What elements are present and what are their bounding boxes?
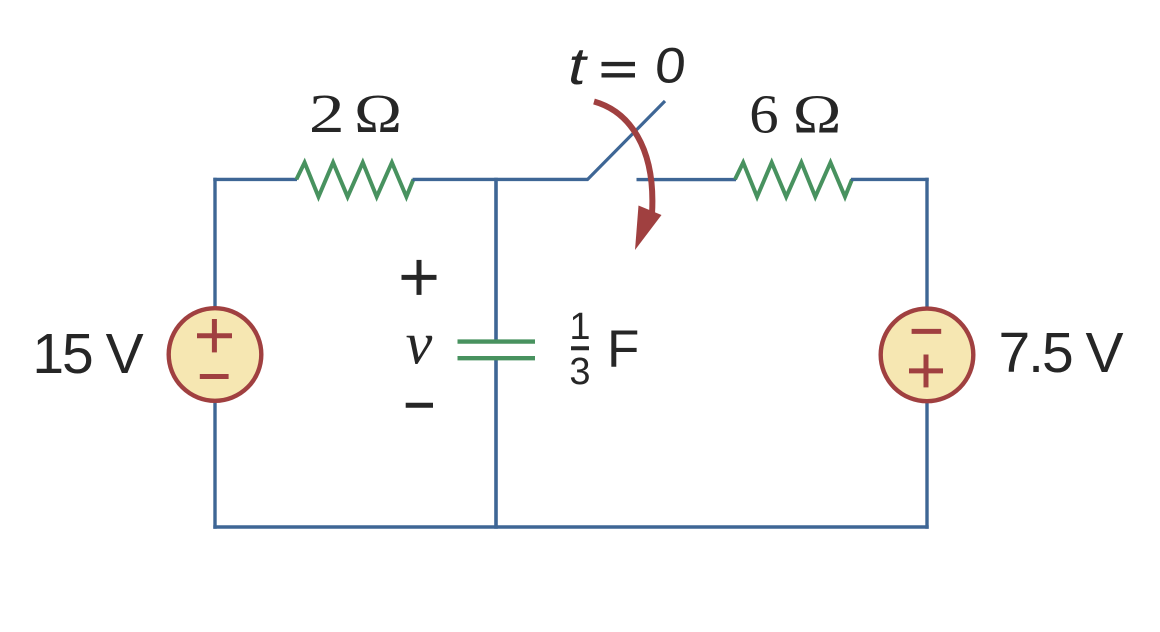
switch blade [587,101,665,180]
resistor R1 2ohm [296,163,413,197]
capacitor C1 top plate [458,339,536,343]
wire right vertical bottom [925,402,928,529]
capacitor C1 bottom plate [458,356,536,360]
source V2 plus [909,368,943,373]
wire middle vertical top [494,178,498,341]
svg-text:2: 2 [309,83,345,144]
wire right vertical top [925,178,928,308]
wire top-left horizontal [213,178,297,181]
svg-text:Ω: Ω [354,83,402,144]
wire switch to resistor 6ohm [637,178,737,181]
wire left vertical bottom [213,402,216,529]
label minus below v [406,403,433,408]
label plus above v [402,275,437,280]
svg-text:1: 1 [569,306,590,348]
wire resistor to switch [413,178,589,181]
wire left vertical top [213,178,216,307]
source V2 circle [881,309,974,402]
fraction bar [571,346,589,350]
wire bottom [213,525,928,528]
switch arrow arc [594,102,652,215]
svg-text:15 V: 15 V [32,322,143,386]
svg-text:F: F [607,320,639,379]
source V2 minus [912,329,942,334]
svg-text:0: 0 [653,38,688,94]
source V1 minus [200,374,229,379]
svg-text:3: 3 [569,351,590,393]
svg-text:Ω: Ω [793,84,842,145]
source V1 circle [169,308,262,401]
svg-text:7.5 V: 7.5 V [998,321,1123,385]
resistor R2 6ohm [735,163,852,197]
wire middle vertical bottom [494,358,498,529]
label t = 0 : equals [602,62,636,66]
svg-text:v: v [406,311,433,377]
source V1 plus [197,333,232,338]
wire resistor to right corner [851,178,929,181]
svg-text:t: t [568,37,589,95]
svg-text:6: 6 [749,84,778,145]
switch arrowhead [635,206,662,251]
